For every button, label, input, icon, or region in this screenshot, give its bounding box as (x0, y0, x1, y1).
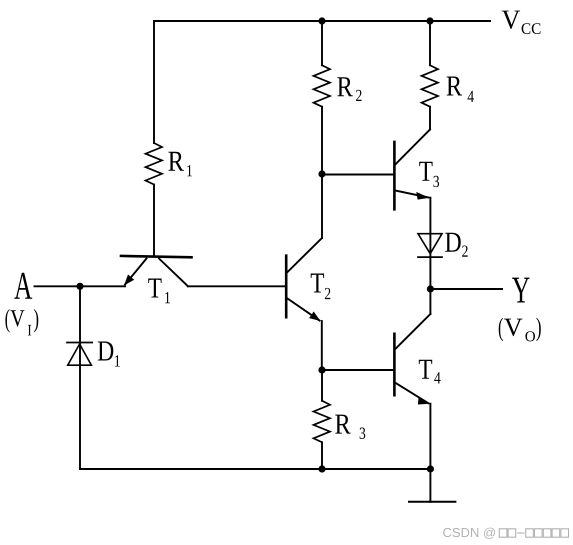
diode D2 triangle pointing down (418, 234, 442, 254)
wire: R4 bottom to T3 collector (429, 107, 431, 130)
label (V_I) (5, 309, 38, 335)
transistor T4 emitter arrowhead (418, 397, 430, 405)
transistor T3 emitter arrowhead (416, 192, 429, 200)
wire: down to ground (429, 469, 431, 502)
label (V_O) (499, 318, 541, 342)
diode D2 cathode bar (418, 256, 442, 258)
node: bottom rail-ground junction dot (427, 465, 434, 472)
wire: rail to R4 top (429, 21, 431, 65)
node: rail-R2 junction dot (318, 17, 325, 24)
transistor T4 base bar (393, 334, 396, 395)
wire: R1 bottom to T1 base (153, 185, 155, 257)
wire: node to R3 top (321, 370, 323, 401)
wire: output node down to T4 collector (429, 289, 431, 314)
label Y output (512, 278, 529, 303)
resistor R3 (314, 401, 331, 443)
node: bottom rail-R3 junction dot (318, 465, 325, 472)
wire: R3 bottom to bottom rail (321, 442, 323, 469)
label T4 (419, 360, 441, 384)
wire: T1 collector to T2 base (188, 285, 286, 287)
transistor T2 collector line (287, 238, 322, 273)
node: T3 base junction dot (318, 170, 325, 177)
label Vcc (502, 11, 541, 34)
node: rail-R4 junction dot (426, 17, 433, 24)
node: input junction dot (76, 283, 83, 290)
transistor T4 collector line (396, 314, 431, 348)
wire: input node down through D1 to bottom rail (79, 286, 81, 469)
label A input (14, 273, 32, 299)
label T2 (311, 274, 331, 300)
wire: input A horizontal (35, 285, 126, 287)
watermark CSDN (443, 528, 568, 539)
ground bar (409, 501, 455, 503)
transistor T1 base bar (121, 256, 192, 257)
label T1 (148, 279, 170, 304)
wire: R2 bottom to node (321, 107, 323, 174)
diode D1 triangle pointing up (68, 344, 92, 365)
resistor R2 (314, 65, 331, 107)
label T3 (419, 162, 439, 187)
diode D1 cathode bar (67, 342, 92, 344)
label D2 (445, 233, 467, 257)
node: T4 base junction dot (318, 366, 325, 373)
wire: R1 top vertical from rail (153, 21, 155, 143)
transistor T2 emitter arrowhead (309, 312, 320, 322)
label R1 (168, 152, 192, 176)
wire: T2 collector up to node (321, 174, 323, 238)
wire: T4 emitter down to bottom rail (429, 404, 431, 469)
resistor R4 (422, 65, 439, 107)
wire: T3 emitter down through D2 to output node (429, 198, 431, 289)
label R2 (337, 77, 361, 101)
wire: T3 base horizontal (322, 174, 394, 176)
wire: T2 emitter down to node (321, 321, 323, 370)
wire: Vcc top rail (154, 20, 490, 22)
label R3 (335, 415, 365, 439)
wire: output Y horizontal (430, 288, 502, 290)
transistor T2 emitter line (288, 299, 320, 321)
transistor T2 base bar (285, 256, 288, 318)
transistor T1 emitter line (125, 259, 147, 285)
wire: rail to R2 top (321, 21, 323, 65)
node: output junction dot (427, 285, 434, 292)
wire: bottom rail (80, 468, 430, 470)
transistor T3 emitter line (396, 191, 429, 198)
wire: T4 base horizontal (322, 369, 394, 371)
transistor T3 collector line (395, 130, 430, 165)
transistor T4 emitter line (396, 383, 428, 403)
label R4 (447, 77, 474, 102)
transistor T3 base bar (393, 142, 396, 209)
transistor T1 collector line (159, 259, 188, 287)
transistor T1 emitter arrowhead (124, 275, 134, 286)
label D1 (98, 342, 120, 367)
resistor R1 (146, 143, 163, 185)
